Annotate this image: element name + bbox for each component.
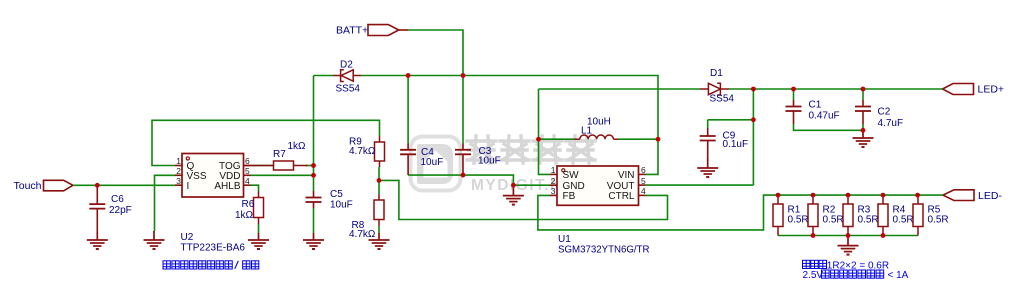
svg-text:1: 1 xyxy=(176,156,181,166)
junction TOG-R7 node xyxy=(311,163,316,168)
op-amp U1 SGM3732 body xyxy=(557,166,639,205)
junction VIN L1 node xyxy=(656,137,661,142)
svg-text:BATT+: BATT+ xyxy=(336,24,368,36)
capacitor C3 xyxy=(455,144,471,176)
wire R6 bottom to ground xyxy=(258,224,260,233)
wire R7 to VDD column xyxy=(306,165,314,167)
wire C4 top lead from D2 rail xyxy=(407,76,409,144)
wire divider junction to CTRL xyxy=(379,180,668,219)
junction C9 node xyxy=(751,117,756,122)
junction BATT C3 node xyxy=(461,73,466,78)
junction Touch node xyxy=(95,183,100,188)
wire output column vertical xyxy=(752,89,754,185)
svg-text:0.1uF: 0.1uF xyxy=(723,139,749,150)
capacitor C9 xyxy=(700,128,716,158)
svg-text:R7: R7 xyxy=(273,149,286,160)
junction R2 bottom node xyxy=(811,233,816,238)
ground under C5 xyxy=(303,233,324,249)
junction R2 top node xyxy=(811,193,816,198)
capacitor C4 xyxy=(400,144,416,176)
resistor R1 xyxy=(773,195,783,235)
svg-text:Touch: Touch xyxy=(14,180,42,192)
ground under R3 xyxy=(838,236,859,255)
svg-text:4: 4 xyxy=(641,186,646,196)
junction C3 bottom node xyxy=(461,173,466,178)
svg-text:4.7uF: 4.7uF xyxy=(878,118,904,129)
wire C5 bottom to ground xyxy=(313,208,315,233)
wire C3 top lead from BATT junction xyxy=(462,76,464,144)
U2 pin stubs xyxy=(175,166,251,186)
op-amp U2 TTP223E-BA6 body xyxy=(182,154,244,198)
svg-text:5: 5 xyxy=(245,166,250,176)
note U2 chinese annotation xyxy=(163,261,170,269)
U2 pin names xyxy=(187,161,241,192)
svg-text:2: 2 xyxy=(551,176,556,186)
svg-text:C2: C2 xyxy=(878,107,891,118)
svg-text:1: 1 xyxy=(551,165,556,175)
svg-text:SS54: SS54 xyxy=(710,94,735,105)
resistor R6 xyxy=(254,192,264,225)
junction R3 top node xyxy=(846,193,851,198)
svg-text:FB: FB xyxy=(563,191,576,202)
resistor R5 xyxy=(913,195,923,235)
svg-text:0.5R: 0.5R xyxy=(893,215,914,226)
wire FB pin to LED- rail xyxy=(538,195,778,230)
svg-text:SS54: SS54 xyxy=(336,84,361,95)
ground under R6 xyxy=(248,233,269,249)
svg-text:3: 3 xyxy=(551,186,556,196)
watermark logo xyxy=(411,137,461,191)
wire VSS pin to ground xyxy=(155,175,176,231)
diode D1 xyxy=(700,83,729,95)
port BATT+ xyxy=(368,25,399,36)
svg-text:SGM3732YTN6G/TR: SGM3732YTN6G/TR xyxy=(558,245,650,256)
wire Touch port to I pin xyxy=(73,184,175,186)
wire D2 anode rail to VIN column xyxy=(361,76,658,140)
wire C4 C3 bottom rail to GND pin xyxy=(408,175,513,185)
wire R8 bottom to ground xyxy=(378,226,380,233)
junction VDD node xyxy=(311,173,316,178)
wire VDD column vertical xyxy=(313,76,315,192)
svg-text:6: 6 xyxy=(245,156,250,166)
junction divider node xyxy=(377,178,382,183)
svg-text:5: 5 xyxy=(641,176,646,186)
svg-text:C1: C1 xyxy=(809,100,822,111)
svg-text:6: 6 xyxy=(641,165,646,175)
svg-text:C5: C5 xyxy=(330,189,343,200)
ground at U1 GND xyxy=(503,185,524,204)
wire C1 top lead wire xyxy=(793,89,795,100)
wire Q output to R9 top xyxy=(152,120,380,165)
junction R3 bottom node xyxy=(846,233,851,238)
ground under C6 xyxy=(87,232,108,249)
svg-text:D1: D1 xyxy=(710,68,723,79)
svg-text:1kΩ: 1kΩ xyxy=(288,141,307,152)
wire SW node vertical xyxy=(539,89,551,174)
wire VIN column to VIN pin xyxy=(646,139,659,174)
svg-text:CTRL: CTRL xyxy=(608,191,635,202)
note R config line 1 chinese part xyxy=(803,260,810,268)
svg-text:LED+: LED+ xyxy=(978,84,1005,96)
resistor R7 xyxy=(244,161,308,170)
svg-text:U2: U2 xyxy=(181,232,194,243)
svg-text:10uF: 10uF xyxy=(330,200,353,211)
svg-text:0.5R: 0.5R xyxy=(823,215,844,226)
svg-text:AHLB: AHLB xyxy=(214,181,240,192)
wire R parallel bottom rail xyxy=(778,235,918,237)
svg-text:0.5R: 0.5R xyxy=(858,215,879,226)
wire BATT+ port to VIN column corner xyxy=(409,30,463,76)
wire C2 top lead wire xyxy=(862,89,864,100)
capacitor C1 xyxy=(786,100,802,124)
resistor R3 xyxy=(843,195,853,235)
ground under C2 xyxy=(853,130,874,147)
ground under R8 xyxy=(369,233,390,249)
wire C9 top wire xyxy=(708,119,754,121)
wire output column to VOUT pin xyxy=(646,184,754,186)
svg-text:4: 4 xyxy=(245,176,250,186)
capacitor C5 xyxy=(306,191,322,208)
junction R4 bottom node xyxy=(881,233,886,238)
U2 pin numbers xyxy=(176,156,250,186)
svg-text:10uF: 10uF xyxy=(478,156,501,167)
svg-text:22pF: 22pF xyxy=(109,205,132,216)
U1 pin names xyxy=(563,170,635,202)
junction C1 node xyxy=(791,87,796,92)
svg-text:VIN: VIN xyxy=(618,170,635,181)
svg-text:L1: L1 xyxy=(581,126,593,137)
junction R4 top node xyxy=(881,193,886,198)
svg-text:I: I xyxy=(187,181,190,192)
svg-text:R6: R6 xyxy=(242,199,255,210)
svg-text:D2: D2 xyxy=(340,60,353,71)
svg-text:3: 3 xyxy=(176,176,181,186)
svg-text:2: 2 xyxy=(176,166,181,176)
wire D1 cathode to LED+ port xyxy=(729,88,943,90)
port LED- xyxy=(943,190,974,201)
wire TOG pin to R7 xyxy=(251,165,274,167)
svg-text:0.5R: 0.5R xyxy=(788,215,809,226)
junction C4 top node xyxy=(406,73,411,78)
inductor L1 xyxy=(575,135,619,139)
capacitor C6 xyxy=(89,185,105,232)
svg-text:U1: U1 xyxy=(558,234,571,245)
wire C1 C2 bottom rail xyxy=(794,124,864,130)
watermark CJK text shu-ma-zhi-jia xyxy=(467,136,496,163)
BATT+ port lead xyxy=(399,29,409,31)
junction SW L1 node xyxy=(536,137,541,142)
wire SW-D1 rail xyxy=(539,88,701,90)
svg-text:VSS: VSS xyxy=(187,171,207,182)
junction GND node xyxy=(511,183,516,188)
capacitor C2 xyxy=(855,100,871,124)
svg-text:10uF: 10uF xyxy=(421,157,444,168)
svg-text:2.5V: 2.5V xyxy=(803,270,824,281)
resistor R8 xyxy=(374,194,384,226)
svg-text:SW: SW xyxy=(563,170,580,181)
junction C2 node xyxy=(861,87,866,92)
svg-text:1kΩ: 1kΩ xyxy=(235,210,254,221)
wire D2 cathode rail to VDD column xyxy=(314,75,334,77)
junction R1 top node xyxy=(776,193,781,198)
wire L1 left lead wire xyxy=(539,138,575,140)
wire VDD pin to VDD column xyxy=(251,174,314,176)
ground under VSS xyxy=(144,231,165,249)
wire R9 bottom to divider junction xyxy=(378,167,380,180)
svg-text:C6: C6 xyxy=(111,194,124,205)
note line 2 chinese part xyxy=(822,270,830,278)
diode D2 xyxy=(333,70,361,82)
resistor R9 xyxy=(375,136,385,167)
junction D1 output node xyxy=(751,87,756,92)
svg-text:0.47uF: 0.47uF xyxy=(809,111,840,122)
wire divider junction to R8 top xyxy=(378,180,380,194)
svg-text:0.5R: 0.5R xyxy=(928,215,949,226)
svg-text:LED-: LED- xyxy=(978,190,1002,202)
resistor R4 xyxy=(878,195,888,235)
svg-text:TTP223E-BA6: TTP223E-BA6 xyxy=(181,243,246,254)
wire C9 top lead wire xyxy=(707,120,709,128)
svg-text:4.7kΩ: 4.7kΩ xyxy=(349,146,376,157)
junction C2 bottom node xyxy=(861,128,866,133)
svg-text:< 1A: < 1A xyxy=(888,270,909,281)
port Touch xyxy=(44,180,73,191)
wire GND node to U1 GND pin xyxy=(513,184,550,186)
resistor R2 xyxy=(808,195,818,235)
wire L1 right lead wire xyxy=(618,138,658,140)
wire AHLB pin to R6 top xyxy=(251,185,259,191)
svg-text:4.7kΩ: 4.7kΩ xyxy=(349,229,376,240)
port LED+ xyxy=(943,84,974,95)
U1 pin stubs xyxy=(550,174,646,195)
wire LED- rail xyxy=(778,194,943,196)
junction R5 top node xyxy=(915,193,920,198)
U1 pin numbers xyxy=(551,165,646,196)
ground under C9 xyxy=(697,158,718,177)
